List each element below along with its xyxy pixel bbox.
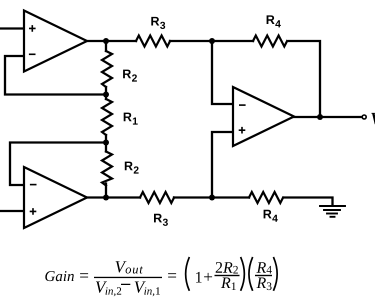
equation: numerator Vout <box>116 261 144 273</box>
label R4 (bottom) <box>264 210 278 222</box>
equation: fraction bar 2 <box>215 275 240 276</box>
node B junction R2/R1 <box>103 92 109 98</box>
equation: Gain <box>45 271 74 281</box>
wire U2 + input <box>0 210 23 212</box>
resistor R3 (bottom) <box>140 192 174 203</box>
op-amp U2 <box>24 167 87 228</box>
equation: right paren 1 <box>241 258 244 290</box>
equation: left paren 2 <box>249 258 252 290</box>
wire U1 - input feedback to node B <box>5 56 105 95</box>
equation: numerator R4 <box>256 262 271 273</box>
label R2 (lower) <box>125 162 139 174</box>
wire R4 to ground <box>284 198 333 206</box>
node top mid <box>209 38 215 44</box>
equation: denominator R1 <box>221 278 236 291</box>
wire U2 output <box>86 196 140 198</box>
resistor R4 (bottom) <box>249 192 283 203</box>
equation: right paren 2 <box>274 258 277 290</box>
wire U1 output <box>86 40 136 42</box>
node C junction R1/R2 <box>103 140 109 146</box>
op-amp U1 <box>24 11 87 72</box>
label R3 (top) <box>151 17 165 29</box>
label R4 (top) <box>267 15 281 27</box>
wire R3 to R4 top <box>170 40 253 42</box>
node at U3 output <box>317 114 323 120</box>
wire U2 - input feedback to node C <box>10 143 105 186</box>
label R2 (upper) <box>123 70 137 82</box>
ground <box>320 206 345 217</box>
wire U3 - input from top node <box>212 42 232 104</box>
node bottom mid <box>209 195 215 201</box>
equation: equals 1 <box>80 273 88 277</box>
equation: denominator Vin2 - Vin1 <box>96 282 160 297</box>
equation: 1 plus <box>196 272 212 283</box>
wire U3 + input from bottom node <box>212 132 232 196</box>
wire R4 to output node <box>289 41 320 117</box>
resistor R2 (lower) <box>102 143 112 198</box>
label R3 (bottom) <box>154 214 168 226</box>
equation: denominator R3 <box>256 278 271 291</box>
wire R3 to R4 bottom <box>174 196 249 198</box>
equation: numerator 2R2 <box>216 262 238 273</box>
node at U2 output <box>103 195 109 201</box>
equation: fraction bar 3 <box>255 275 272 276</box>
op-amp U3 <box>233 87 294 146</box>
equation: fraction bar 1 <box>94 277 162 278</box>
node at U1 output <box>103 38 109 44</box>
equation: left paren 1 <box>186 258 189 290</box>
label V output (clipped) <box>371 113 375 124</box>
label R1 <box>124 113 138 125</box>
resistor R1 <box>102 95 112 143</box>
equation: equals 2 <box>168 273 176 277</box>
wire U3 output <box>293 116 361 118</box>
resistor R2 (upper) <box>102 41 112 95</box>
output terminal <box>362 115 366 119</box>
resistor R3 (top) <box>136 36 170 47</box>
wire U1 + input <box>0 27 23 29</box>
resistor R4 (top) <box>253 36 287 47</box>
